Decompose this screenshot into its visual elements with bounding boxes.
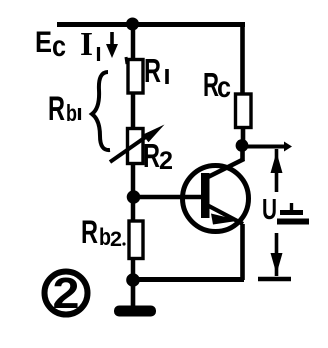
wire between R1 and R2	[131, 93, 136, 128]
node base junction	[127, 190, 141, 204]
node top junction	[126, 18, 139, 31]
label Rb1	[48, 90, 80, 128]
label Ec	[35, 26, 66, 63]
svg-text:R: R	[81, 214, 98, 250]
wire bottom rail	[133, 277, 244, 282]
wire Rc to collector node	[241, 127, 246, 146]
svg-text:b: b	[66, 100, 77, 126]
dimension arrow lower	[258, 233, 291, 279]
svg-text:R: R	[143, 137, 160, 174]
label U output	[262, 194, 309, 226]
svg-text:2: 2	[159, 147, 173, 175]
svg-text:R: R	[48, 90, 65, 128]
label circled 2	[45, 269, 88, 318]
transistor VT	[183, 159, 249, 232]
dimension tick top	[242, 142, 292, 152]
dimension arrow upper	[271, 149, 283, 192]
svg-text:c: c	[217, 71, 231, 104]
wire base	[134, 195, 202, 200]
label R1	[144, 52, 167, 89]
svg-text:2: 2	[110, 228, 122, 251]
label Rc	[203, 66, 231, 104]
svg-text:2: 2	[53, 269, 80, 318]
svg-text:R: R	[144, 52, 161, 89]
wire left branch top	[131, 24, 136, 60]
label I1	[80, 26, 127, 64]
resistor Rb2	[129, 221, 143, 259]
svg-text:E: E	[35, 26, 52, 59]
ground	[114, 283, 156, 317]
svg-text:U: U	[262, 194, 277, 226]
wire collector node to transistor	[240, 146, 245, 161]
svg-text:c: c	[52, 30, 66, 63]
wire base node to Rb2	[131, 200, 136, 221]
label Rb2	[81, 214, 126, 251]
wire top rail	[57, 22, 245, 27]
resistor R2 variable	[110, 125, 165, 164]
node emitter junction	[126, 273, 140, 287]
node collector junction	[236, 139, 249, 152]
label R2	[143, 137, 173, 175]
wire right branch upper	[240, 22, 245, 95]
resistor R1	[128, 60, 143, 94]
brace for Rb1	[92, 72, 110, 150]
wire emitter down	[240, 224, 245, 280]
resistor Rc	[236, 94, 252, 128]
wire R2 to base node	[131, 164, 136, 194]
svg-text:I: I	[80, 26, 93, 63]
current arrow I1	[106, 32, 118, 58]
wire Rb2 to ground node	[131, 258, 136, 275]
